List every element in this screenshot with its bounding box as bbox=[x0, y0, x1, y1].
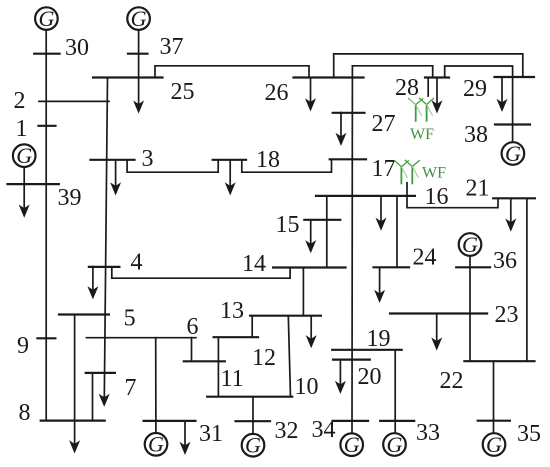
svg-text:31: 31 bbox=[199, 421, 223, 447]
svg-text:39: 39 bbox=[58, 185, 82, 211]
svg-text:13: 13 bbox=[220, 298, 244, 324]
wire 5-6 bbox=[87, 337, 196, 339]
bus 35 bar bbox=[478, 420, 510, 422]
svg-text:22: 22 bbox=[440, 368, 464, 394]
bus 14 bar bbox=[273, 266, 345, 268]
wind farm WF at bus 28 bbox=[409, 98, 434, 121]
wire 13-10 bbox=[288, 316, 290, 397]
generator G35 bbox=[483, 432, 506, 457]
wire 12-13 bbox=[251, 316, 253, 338]
main trunk wire 26-27-17-16-19-20-34 bbox=[351, 66, 353, 433]
load arrow at bus 39 bbox=[19, 184, 30, 218]
svg-text:3: 3 bbox=[142, 146, 154, 172]
wire 6-11 tick bbox=[191, 338, 193, 362]
wire 26-29 top bbox=[334, 54, 523, 78]
bus 13 bar bbox=[250, 315, 321, 317]
svg-text:11: 11 bbox=[221, 366, 244, 392]
bus 30 bar bbox=[34, 53, 59, 55]
load arrow at bus 3 bbox=[110, 160, 121, 196]
load arrow at bus 4 bbox=[87, 266, 98, 299]
bus 9 tick bbox=[37, 337, 55, 339]
svg-text:16: 16 bbox=[425, 184, 449, 210]
generator G38 bbox=[502, 141, 525, 166]
svg-text:19: 19 bbox=[367, 326, 391, 352]
wire 26-28 upper bbox=[352, 66, 432, 78]
generator G37 bbox=[127, 6, 150, 31]
svg-text:32: 32 bbox=[275, 418, 299, 444]
svg-text:21: 21 bbox=[466, 176, 490, 202]
wire 16-24 bbox=[396, 196, 398, 267]
bus 29 bar bbox=[495, 76, 535, 78]
wire G30 down to bus 8 (left trunk) bbox=[45, 30, 47, 421]
svg-text:WF: WF bbox=[422, 165, 446, 182]
bus 3 bar bbox=[91, 159, 135, 161]
bus 37 bar bbox=[128, 53, 148, 55]
svg-text:G: G bbox=[131, 6, 147, 31]
bus 39 bar bbox=[8, 183, 59, 185]
bus 22 bar bbox=[464, 360, 534, 362]
wire 21-22 bbox=[526, 198, 528, 361]
bus 28 bar bbox=[425, 76, 449, 78]
bus 21 bar bbox=[493, 197, 535, 199]
svg-text:2: 2 bbox=[14, 88, 26, 114]
bus 16 bar bbox=[316, 195, 415, 197]
bus 24 bar bbox=[374, 266, 410, 268]
svg-text:35: 35 bbox=[517, 421, 541, 447]
bus 15 bar bbox=[304, 219, 340, 221]
svg-text:10: 10 bbox=[295, 374, 319, 400]
svg-text:18: 18 bbox=[256, 147, 280, 173]
svg-text:G: G bbox=[486, 432, 502, 457]
svg-text:G: G bbox=[245, 433, 261, 458]
svg-text:G: G bbox=[16, 143, 32, 168]
svg-text:7: 7 bbox=[125, 375, 137, 401]
bus 26 bar bbox=[294, 76, 364, 78]
wire G39 to bus 39 bbox=[23, 167, 25, 184]
svg-text:17: 17 bbox=[372, 156, 396, 182]
bus 1 tick bbox=[39, 125, 56, 127]
svg-text:WF: WF bbox=[410, 126, 434, 143]
wire G36 to bus 36 bbox=[469, 256, 471, 267]
svg-text:6: 6 bbox=[187, 314, 199, 340]
wire 5-8 with load arrow through bus 8 bbox=[69, 315, 80, 454]
bus 33 bar bbox=[380, 420, 414, 422]
generator G31 bbox=[145, 432, 168, 457]
load arrow at bus 24 bbox=[374, 267, 385, 303]
svg-text:4: 4 bbox=[131, 250, 143, 276]
generator G30 bbox=[35, 6, 58, 31]
bus 27 bar bbox=[333, 112, 365, 114]
generator G33 bbox=[383, 432, 406, 457]
load arrow at bus 15 bbox=[305, 220, 316, 254]
bus 8 bar bbox=[41, 420, 105, 422]
svg-text:38: 38 bbox=[464, 122, 488, 148]
bus 34 bar bbox=[333, 420, 368, 422]
wind farm WF at bus 17 bbox=[394, 160, 419, 183]
wire 22-35 bbox=[493, 361, 495, 433]
bus 18 bar bbox=[213, 159, 246, 161]
load arrow at bus 26 bbox=[305, 78, 316, 112]
wire 16-15-14 bbox=[326, 196, 328, 268]
wire 4-14 bbox=[112, 267, 290, 278]
svg-text:26: 26 bbox=[265, 80, 289, 106]
main trunk wire 25-2-3-4-5-7 with load arrow bbox=[99, 78, 110, 407]
svg-text:36: 36 bbox=[493, 248, 517, 274]
svg-text:14: 14 bbox=[242, 251, 266, 277]
bus 31 bar bbox=[144, 420, 196, 422]
load arrow at bus 28 bbox=[432, 78, 443, 114]
wire 7-8 bbox=[92, 373, 94, 421]
load arrow at bus 29 bbox=[497, 77, 508, 112]
load arrow at bus 21 bbox=[505, 198, 516, 231]
generator G36 bbox=[459, 232, 482, 257]
wire WF-17 stem down to bus 16 and step to 21 bbox=[407, 183, 498, 208]
wire 36-23-22 bbox=[469, 267, 471, 361]
svg-text:5: 5 bbox=[124, 306, 136, 332]
svg-text:28: 28 bbox=[395, 75, 419, 101]
svg-text:23: 23 bbox=[495, 302, 519, 328]
wire 12-11-10 bbox=[217, 337, 219, 397]
svg-text:G: G bbox=[344, 432, 360, 457]
svg-text:30: 30 bbox=[65, 35, 89, 61]
bus 2 link wire bbox=[39, 100, 109, 102]
wire 14-13 bbox=[302, 268, 304, 316]
load arrow at bus 23 bbox=[431, 314, 442, 351]
bus 17 bar bbox=[330, 158, 366, 160]
svg-text:G: G bbox=[38, 6, 54, 31]
load arrow at bus 27 bbox=[336, 113, 347, 147]
svg-text:15: 15 bbox=[276, 212, 300, 238]
bus 4 bar bbox=[89, 266, 120, 268]
svg-text:29: 29 bbox=[463, 76, 487, 102]
bus 12 bar bbox=[214, 336, 258, 338]
wire 3-18 bbox=[127, 160, 218, 172]
wire 18-17 bbox=[242, 159, 332, 172]
svg-text:G: G bbox=[505, 141, 521, 166]
svg-text:37: 37 bbox=[160, 34, 184, 60]
svg-text:12: 12 bbox=[252, 345, 276, 371]
bus 32 bar bbox=[236, 420, 271, 422]
bus 7 bar bbox=[86, 372, 115, 374]
load arrow at bus 20 bbox=[335, 360, 346, 394]
bus 5 bar bbox=[59, 313, 109, 315]
svg-text:24: 24 bbox=[413, 245, 437, 271]
bus 19 bar bbox=[332, 349, 402, 351]
svg-text:G: G bbox=[148, 432, 164, 457]
bus 25 bar bbox=[93, 76, 163, 78]
svg-text:20: 20 bbox=[358, 364, 382, 390]
svg-text:9: 9 bbox=[17, 333, 29, 359]
bus 38 bar bbox=[495, 123, 530, 125]
svg-text:25: 25 bbox=[171, 79, 195, 105]
bus 11 bar bbox=[184, 360, 225, 362]
bus 23 bar bbox=[390, 312, 487, 314]
svg-text:8: 8 bbox=[19, 400, 31, 426]
wire 10-32 bbox=[252, 397, 254, 434]
wire WF stem at bus 28 bbox=[427, 78, 429, 97]
load arrow at bus 18 bbox=[225, 160, 236, 196]
generator G34 bbox=[340, 432, 363, 457]
wire 19-33 bbox=[394, 350, 396, 433]
generator G39 bbox=[13, 143, 36, 168]
load arrow at bus 13 bbox=[306, 316, 317, 349]
load arrow at bus 16 bbox=[376, 196, 387, 231]
wire 6-31 bbox=[155, 338, 157, 433]
svg-text:33: 33 bbox=[416, 420, 440, 446]
svg-text:G: G bbox=[387, 432, 403, 457]
bus 10 bar bbox=[207, 396, 292, 398]
bus 36 bar bbox=[456, 266, 490, 268]
generator G32 bbox=[242, 433, 265, 458]
wire G37 down through bus 37 to bus 25 with load arrow bbox=[133, 30, 144, 114]
wire 28-38 right link bbox=[445, 66, 513, 142]
wire 25-26 bbox=[155, 66, 309, 78]
svg-text:27: 27 bbox=[372, 111, 396, 137]
svg-text:1: 1 bbox=[16, 116, 28, 142]
svg-text:G: G bbox=[462, 232, 478, 257]
bus 20 bar bbox=[333, 359, 370, 361]
load arrow at bus 31 bbox=[180, 421, 191, 455]
